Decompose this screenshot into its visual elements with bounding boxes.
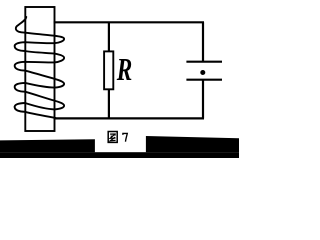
wire: resistor branch top	[108, 22, 110, 52]
caption digit 7 (drawn)	[123, 133, 127, 141]
black band bottom full strip	[0, 152, 239, 158]
capacitor C top plate	[186, 61, 222, 63]
iron core (rectangle)	[25, 7, 54, 131]
wire: capacitor branch upper	[202, 22, 204, 62]
wire: bottom horizontal	[54, 117, 205, 119]
coil L wound around core	[15, 17, 64, 118]
black band right segment	[146, 136, 239, 152]
svg-text:R: R	[116, 51, 132, 87]
wire: capacitor branch lower	[202, 80, 204, 119]
capacitor C bottom plate	[186, 79, 222, 81]
black band left segment	[0, 139, 95, 152]
resistor R (box)	[104, 51, 113, 89]
wire: top horizontal	[54, 21, 205, 23]
charged particle (dot) between plates	[200, 70, 205, 75]
wire: resistor branch bottom	[108, 89, 110, 119]
caption glyph 图 (drawn)	[108, 132, 117, 143]
